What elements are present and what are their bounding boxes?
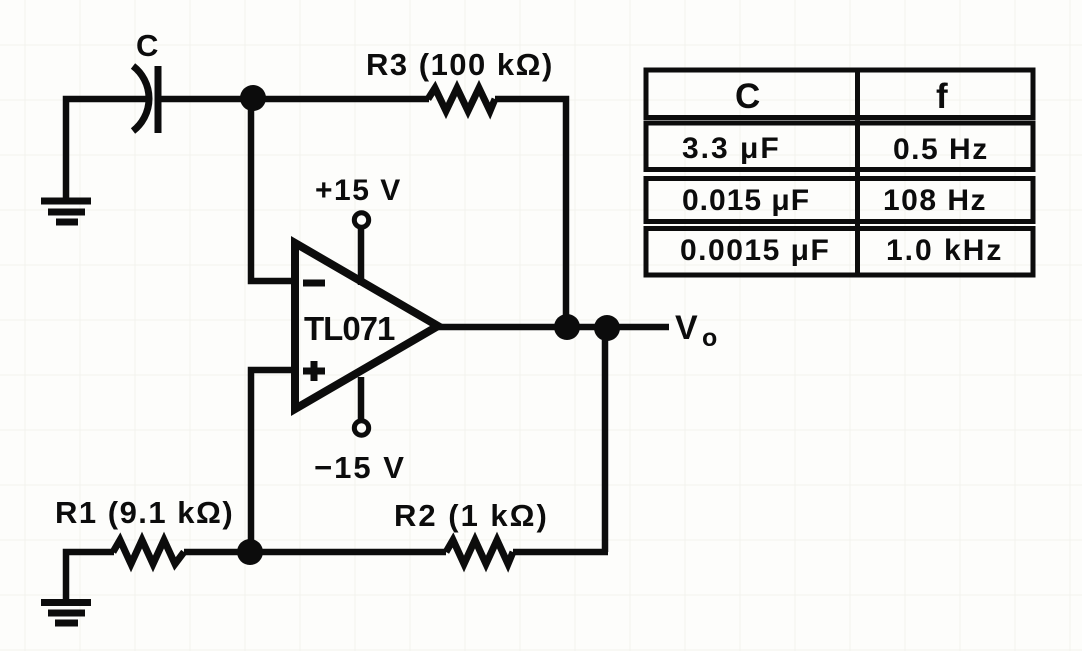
ground (top-left) — [41, 201, 91, 222]
svg-text:−15 V: −15 V — [314, 450, 406, 485]
svg-text:TL071: TL071 — [304, 310, 395, 347]
table cell 3.3 uF — [682, 132, 781, 165]
wire: node D to R2 — [250, 549, 446, 556]
wire: non-inverting input down to node D — [251, 370, 295, 552]
table cell 1.0 kHz — [886, 234, 1003, 267]
svg-text:o: o — [702, 324, 717, 352]
svg-text:R3 (100 kΩ): R3 (100 kΩ) — [366, 47, 554, 82]
wire: capacitor to node A — [161, 96, 253, 103]
resistor R2 — [446, 540, 513, 564]
wire: ground to R1 — [66, 552, 114, 601]
wire: node A down to inverting input — [251, 98, 295, 281]
plus sign (non-inverting input) — [303, 361, 325, 381]
node A (junction dot) — [240, 85, 266, 111]
wire: R2 to node C vertical — [513, 549, 608, 556]
table cell 0.015 uF — [682, 184, 810, 217]
wire: +15V pin — [358, 228, 365, 285]
table header C — [735, 77, 760, 116]
svg-text:f: f — [936, 77, 948, 116]
svg-text:0.0015 μF: 0.0015 μF — [680, 234, 830, 267]
table cell 0.5 Hz — [893, 133, 989, 166]
resistor R1 — [113, 540, 184, 564]
table row 2 box — [646, 179, 1033, 222]
wire: R1 to node D — [184, 549, 250, 556]
svg-text:V: V — [675, 309, 698, 347]
svg-text:+15 V: +15 V — [315, 174, 402, 207]
wire: op-amp output to Vo — [436, 324, 669, 331]
svg-text:R1 (9.1 kΩ): R1 (9.1 kΩ) — [55, 495, 234, 530]
table row 3 box — [646, 229, 1033, 276]
label +15 V — [315, 174, 402, 207]
+15V terminal circle — [354, 213, 368, 227]
svg-text:C: C — [136, 28, 158, 63]
capacitor C — [133, 66, 158, 133]
wire: R3 to node B (down right side) — [495, 99, 566, 327]
label R3 (100 kΩ) — [366, 47, 554, 82]
wire: ground to capacitor left plate — [66, 99, 150, 202]
label R1 (9.1 kΩ) — [55, 495, 234, 530]
table row 1 box — [646, 123, 1033, 170]
svg-text:108 Hz: 108 Hz — [883, 184, 987, 217]
svg-text:R2 (1 kΩ): R2 (1 kΩ) — [394, 498, 549, 533]
table cell 108 Hz — [883, 184, 987, 217]
svg-text:0.015 μF: 0.015 μF — [682, 184, 810, 217]
ground (bottom-left) — [41, 603, 91, 624]
resistor R3 — [428, 88, 495, 111]
minus sign (inverting input) — [303, 280, 325, 287]
op-amp U1 triangle — [295, 243, 438, 409]
node C (junction dot, output) — [594, 315, 620, 341]
svg-text:1.0 kHz: 1.0 kHz — [886, 234, 1003, 267]
wire: node C down to R2 — [602, 328, 609, 552]
label -15 V — [314, 450, 406, 485]
-15V terminal circle — [354, 421, 368, 435]
label C — [136, 28, 158, 63]
label Vo — [675, 309, 717, 352]
label TL071 — [304, 310, 395, 347]
node B (junction dot, feedback) — [554, 314, 580, 340]
table header row box — [646, 70, 1033, 118]
table header f — [936, 77, 948, 116]
node D (junction dot) — [237, 539, 263, 565]
wire: node A to R3 — [253, 96, 429, 103]
svg-text:C: C — [735, 77, 760, 116]
wire: -15V pin — [358, 377, 365, 420]
table column divider — [855, 70, 860, 275]
svg-text:0.5 Hz: 0.5 Hz — [893, 133, 989, 166]
svg-text:3.3 μF: 3.3 μF — [682, 132, 781, 165]
label R2 (1 kΩ) — [394, 498, 549, 533]
table cell 0.0015 uF — [680, 234, 830, 267]
